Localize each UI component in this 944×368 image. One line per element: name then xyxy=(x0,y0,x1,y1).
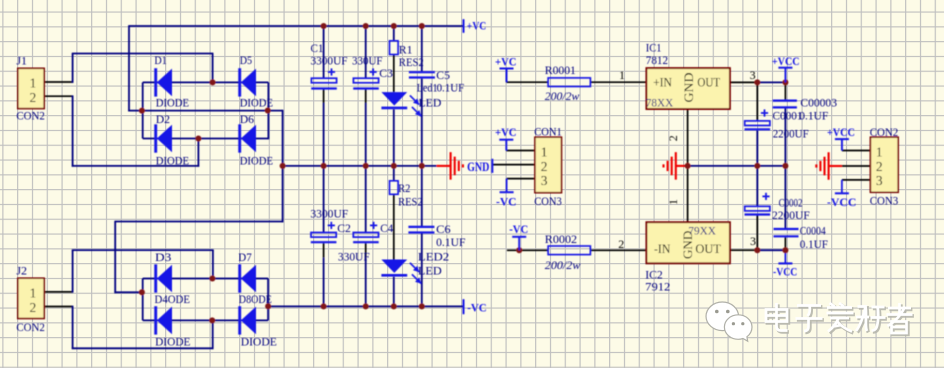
wire C4 to bottom rail xyxy=(365,258,367,307)
stem +VC at CON1 xyxy=(505,140,507,151)
svg-text:C3: C3 xyxy=(379,66,393,80)
svg-text:RES2: RES2 xyxy=(398,194,423,208)
power -VC at R0002 xyxy=(512,237,526,251)
svg-text:330UF: 330UF xyxy=(352,54,383,68)
watermark wechat logo xyxy=(706,302,752,341)
pin IC2 OUT xyxy=(730,249,758,251)
wire CON2 pin2 xyxy=(842,165,871,167)
wire D3-D4 left vertical xyxy=(142,279,144,321)
wire C0004 to IC2 rail xyxy=(784,237,786,250)
junction (323.6,26) xyxy=(321,23,327,29)
svg-text:D2: D2 xyxy=(156,112,170,126)
wire row y110 between diode rows xyxy=(128,110,282,112)
svg-text:LED: LED xyxy=(418,264,442,278)
power -VCC at IC2 out xyxy=(778,262,792,264)
svg-text:2: 2 xyxy=(876,159,883,174)
svg-text:CON2: CON2 xyxy=(16,109,45,123)
svg-text:C2: C2 xyxy=(337,221,351,235)
wire J1 pin1 xyxy=(44,81,73,83)
wire C1 top xyxy=(323,26,325,78)
svg-text:DIODE: DIODE xyxy=(240,153,273,167)
svg-text:OUT: OUT xyxy=(695,241,721,256)
junction (323.6,306.4) xyxy=(321,303,327,309)
svg-text:3300UF: 3300UF xyxy=(310,207,348,221)
junction (365.7,165.9) xyxy=(363,163,369,169)
svg-text:+VC: +VC xyxy=(467,19,487,33)
earth ground at CON2 pin2 xyxy=(816,152,828,180)
junction (282.6,165.9) xyxy=(280,163,286,169)
svg-text:J1: J1 xyxy=(16,53,27,67)
svg-text:+VC: +VC xyxy=(495,125,517,139)
power +VCC at IC1 out xyxy=(778,68,792,83)
wire J2 pin2 xyxy=(44,306,73,308)
junction (687.6,165.9) xyxy=(685,163,691,169)
svg-text:+IN: +IN xyxy=(653,75,672,90)
wire mid to C0002 xyxy=(756,166,758,206)
svg-text:D8ODE: D8ODE xyxy=(239,292,272,306)
svg-text:CON3: CON3 xyxy=(534,194,562,208)
junction (198.4,138.5) xyxy=(195,136,201,142)
svg-text:RES2: RES2 xyxy=(399,55,424,69)
pin C1 bottom xyxy=(323,89,325,103)
svg-text:1: 1 xyxy=(876,145,883,160)
wire to C0001 xyxy=(756,82,758,121)
wire mid rail to C2 xyxy=(323,166,325,233)
wire J1.2 to D2 row xyxy=(72,165,199,167)
power +VC at R0001 xyxy=(500,69,514,83)
pin IC2 GND up xyxy=(687,166,689,222)
svg-text:J2: J2 xyxy=(16,264,27,278)
resistor R0001 body xyxy=(548,78,590,87)
capacitor C0001 xyxy=(745,109,771,129)
wire riser J1.1 xyxy=(72,54,74,83)
wire D5/D6 right vertical xyxy=(267,82,269,139)
wire C2 to bottom rail xyxy=(323,258,325,307)
pin C4 bottom xyxy=(365,243,367,258)
wire CON1 pin3 xyxy=(507,178,535,180)
wire C0001 to mid xyxy=(756,131,758,166)
junction (421.8,165.9) xyxy=(419,163,425,169)
svg-text:-VC: -VC xyxy=(496,195,517,209)
junction (757.3,165.9) xyxy=(754,163,760,169)
wire GND mid rail xyxy=(283,165,437,167)
svg-text:-IN: -IN xyxy=(654,241,671,256)
capacitor C0004 xyxy=(774,229,799,236)
power +VC at CON1 xyxy=(499,140,513,151)
junction (393.8,306.4) xyxy=(391,303,397,309)
stem -VC at R0002 xyxy=(518,237,520,251)
wire CON2 pin3 xyxy=(842,179,871,181)
connector CON2 right xyxy=(870,137,898,192)
junction (365.7,26) xyxy=(363,23,369,29)
junction (519.2,250.3) xyxy=(516,247,522,253)
svg-text:GND: GND xyxy=(681,73,696,103)
svg-text:C0001: C0001 xyxy=(773,108,803,122)
svg-text:-VC: -VC xyxy=(467,301,487,315)
power -VC at CON1 xyxy=(500,191,514,193)
svg-text:R0002: R0002 xyxy=(545,232,577,246)
LED Led1 xyxy=(381,92,421,116)
svg-text:+VC: +VC xyxy=(495,55,517,69)
svg-text:3300UF: 3300UF xyxy=(311,54,348,68)
capacitor C5 xyxy=(409,72,435,77)
svg-text:3: 3 xyxy=(750,234,756,248)
resistor R0002 body xyxy=(548,246,590,255)
wire riser J2.2 down xyxy=(72,306,74,349)
svg-text:CON2: CON2 xyxy=(870,125,899,139)
connector J2 xyxy=(18,278,44,318)
svg-text:-VCC: -VCC xyxy=(773,264,797,278)
wire C3 top xyxy=(365,26,367,78)
svg-text:2: 2 xyxy=(666,135,680,141)
wire D7/D8 right vertical xyxy=(267,279,269,321)
svg-text:1: 1 xyxy=(541,145,548,160)
junction (785.4,82.4) xyxy=(782,79,788,85)
wire D2 D6 row xyxy=(143,138,269,140)
wire C1 to mid rail xyxy=(323,103,325,166)
wire CON1 pin1 xyxy=(506,150,535,152)
junction (212.2,320.4) xyxy=(209,317,215,323)
svg-text:2: 2 xyxy=(541,159,548,174)
svg-text:0.1UF: 0.1UF xyxy=(800,237,828,251)
stem -VCC at CON2 xyxy=(841,180,843,193)
junction (421.8,26) xyxy=(419,23,425,29)
wire vertical x115 xyxy=(114,222,116,294)
wire C5 to mid rail xyxy=(421,79,423,166)
watermark text 电子爱好者 xyxy=(767,304,914,334)
wire left vertical x129 xyxy=(128,25,130,111)
capacitor C2 xyxy=(311,222,337,242)
svg-text:79XX: 79XX xyxy=(688,223,716,237)
regulator IC1 7812 xyxy=(646,68,730,109)
svg-text:D1: D1 xyxy=(154,53,166,67)
wire mid rail to C4 xyxy=(365,166,367,233)
junction (141.9,110.6) xyxy=(139,108,145,114)
svg-text:3: 3 xyxy=(541,173,548,188)
wire CON1 pin2 from GND port xyxy=(492,164,535,166)
wire R0002 to IC2 -IN xyxy=(590,249,646,251)
diode D7 xyxy=(240,264,256,292)
junction (267.7,110.5) xyxy=(265,108,271,114)
wire up to D2/D6 row xyxy=(197,139,199,167)
connector J1 xyxy=(18,68,44,108)
svg-text:-VC: -VC xyxy=(509,222,528,236)
diode D4 xyxy=(156,306,172,334)
capacitor C3 xyxy=(353,68,379,88)
junction (365.7,306.4) xyxy=(363,303,369,309)
wire -VC bottom rail xyxy=(267,305,463,307)
svg-text:C6: C6 xyxy=(436,222,451,236)
wire mid rail to C6 xyxy=(421,166,423,227)
wire D5 row xyxy=(213,81,269,83)
wire right GND rail xyxy=(687,165,786,167)
wire cross horizontal y221 xyxy=(114,221,283,223)
wire mid rail to R2 xyxy=(393,166,395,181)
junction (757.3,250.2) xyxy=(754,247,760,253)
wire +VC to R0001 xyxy=(507,81,549,83)
wire mid to C0004 xyxy=(784,166,786,229)
LED LED2 xyxy=(381,260,421,284)
wire drop to D3/D7 row xyxy=(212,250,214,278)
pin IC1 OUT xyxy=(730,81,758,83)
svg-text:2200UF: 2200UF xyxy=(773,127,809,141)
capacitor C00003 xyxy=(773,101,797,108)
stem -VCC at IC2 out xyxy=(784,250,786,263)
wire C6 to bottom rail xyxy=(421,233,423,307)
wire D1 row xyxy=(143,81,213,83)
svg-text:0.1UF: 0.1UF xyxy=(799,108,828,122)
svg-text:C4: C4 xyxy=(380,221,393,235)
svg-text:R0001: R0001 xyxy=(545,63,576,77)
svg-text:3: 3 xyxy=(876,173,883,188)
junction (393.8,26) xyxy=(391,23,397,29)
pin C3 bottom xyxy=(365,89,367,103)
junction (757.3,82.4) xyxy=(754,79,760,85)
svg-text:200/2w: 200/2w xyxy=(545,258,581,272)
wire IC1 out rail xyxy=(757,81,785,83)
capacitor C1 xyxy=(311,68,337,88)
junction (785.4,165.9) xyxy=(782,163,788,169)
diode D3 xyxy=(156,264,172,292)
svg-text:DIODE: DIODE xyxy=(156,96,189,110)
svg-text:78XX: 78XX xyxy=(646,96,674,110)
svg-text:DIODE: DIODE xyxy=(156,153,189,167)
wire D3 D7 row xyxy=(143,278,268,280)
wire R1 top xyxy=(393,26,395,41)
stem +VC at R0001 xyxy=(506,69,508,83)
svg-text:2: 2 xyxy=(30,300,37,315)
svg-text:C0004: C0004 xyxy=(800,224,826,238)
power +VCC at CON2 xyxy=(835,139,849,150)
junction (323.6,165.9) xyxy=(321,163,327,169)
capacitor C0002 xyxy=(745,193,771,215)
wire -VC stub to R0002 xyxy=(507,249,548,251)
wire D4 D8 row xyxy=(143,319,268,321)
power -VCC at CON2 xyxy=(835,192,849,194)
wire D1-D2 left vertical xyxy=(142,82,144,138)
wire C5 top xyxy=(421,26,423,71)
wire riser J2.1 up xyxy=(72,250,74,293)
svg-text:-VCC: -VCC xyxy=(827,195,856,209)
diode D8 xyxy=(240,306,256,334)
svg-text:Led1: Led1 xyxy=(417,81,438,95)
power -VC bottom rail xyxy=(463,299,465,314)
svg-text:2: 2 xyxy=(30,90,37,105)
svg-text:LED: LED xyxy=(419,95,442,109)
wire top horizontal J1.1 xyxy=(72,53,214,55)
wire mid vertical x282 xyxy=(282,110,284,223)
capacitor C4 xyxy=(353,222,379,242)
wire red lead to power ground xyxy=(437,165,451,167)
red lead CON2 earth xyxy=(829,165,842,167)
svg-text:1: 1 xyxy=(666,199,680,205)
wire R0001 to IC1 +IN xyxy=(590,81,646,83)
wire LED2 to bottom rail xyxy=(393,277,395,307)
junction (212.4,278.5) xyxy=(209,276,215,282)
earth ground at IC GND rail xyxy=(664,152,676,180)
wire J2 pin1 xyxy=(44,291,73,293)
junction (268.1,306.3) xyxy=(265,303,271,309)
wire up to D4/D8 row xyxy=(212,320,214,349)
power ground GND (red bars) xyxy=(451,152,463,180)
junction (212.6,82.4) xyxy=(210,79,216,85)
red lead right earth xyxy=(676,165,688,167)
diode D5 xyxy=(240,68,256,96)
svg-text:1: 1 xyxy=(30,285,37,300)
power port bar GND xyxy=(491,159,493,173)
svg-text:3: 3 xyxy=(750,68,756,82)
pin IC1 GND down xyxy=(687,109,689,167)
wire J1 pin2 xyxy=(44,95,73,97)
capacitor C6 xyxy=(408,227,434,233)
wire J2.2 horizontal xyxy=(72,347,214,349)
svg-text:1: 1 xyxy=(619,68,625,82)
resistor R1 body xyxy=(390,41,399,55)
wire J2.1 horizontal xyxy=(72,249,214,251)
junction (393.8,165.9) xyxy=(391,163,397,169)
power +VC top rail xyxy=(463,19,465,33)
svg-text:2200UF: 2200UF xyxy=(772,208,810,222)
svg-text:GND: GND xyxy=(467,160,489,174)
stem +VCC xyxy=(784,68,786,83)
connector CON1 xyxy=(535,137,562,193)
pin C2 bottom xyxy=(323,243,325,258)
svg-text:2: 2 xyxy=(618,237,624,251)
stem +VCC at CON2 xyxy=(841,139,843,150)
svg-text:CON3: CON3 xyxy=(870,194,899,208)
junction (141.9,292.3) xyxy=(139,289,145,295)
wire IC2 out rail xyxy=(757,249,785,251)
svg-text:D6: D6 xyxy=(240,112,254,126)
svg-text:200/2w: 200/2w xyxy=(545,89,580,103)
regulator IC2 7912 xyxy=(646,222,730,263)
svg-text:OUT: OUT xyxy=(697,75,720,90)
wire C3 to mid rail xyxy=(365,103,367,166)
wire into D3/D4 node xyxy=(114,291,142,293)
wire CON2 pin1 xyxy=(842,150,871,152)
svg-text:7812: 7812 xyxy=(646,53,668,67)
svg-text:D5: D5 xyxy=(240,53,252,67)
svg-text:7912: 7912 xyxy=(645,279,670,293)
svg-text:D7: D7 xyxy=(238,250,251,264)
wire LED1 to mid rail xyxy=(393,109,395,165)
svg-text:DIODE: DIODE xyxy=(241,335,277,349)
wire C00003 to mid xyxy=(784,109,786,166)
wire riser J1.2 down xyxy=(72,95,74,166)
svg-text:330UF: 330UF xyxy=(338,250,370,264)
wire R1 to LED1 xyxy=(393,55,395,93)
diode D2 xyxy=(156,124,172,152)
svg-text:+VCC: +VCC xyxy=(772,54,800,68)
svg-text:CON2: CON2 xyxy=(16,320,45,334)
svg-text:LED2: LED2 xyxy=(418,250,449,264)
svg-text:1: 1 xyxy=(30,75,37,90)
junction (785.4,250.2) xyxy=(782,247,788,253)
svg-text:D3: D3 xyxy=(155,250,171,264)
svg-text:0.1UF: 0.1UF xyxy=(437,81,465,95)
svg-text:+VCC: +VCC xyxy=(827,125,855,139)
wire +VC top rail xyxy=(129,25,464,27)
svg-text:D4ODE: D4ODE xyxy=(155,292,191,306)
diode D1 xyxy=(156,68,172,96)
junction (421.8,306.4) xyxy=(419,303,425,309)
resistor R2 body xyxy=(390,181,399,195)
svg-text:DIODE: DIODE xyxy=(240,96,273,110)
wire R2 to LED2 xyxy=(393,194,395,259)
svg-text:0.1UF: 0.1UF xyxy=(436,235,466,249)
svg-text:C00003: C00003 xyxy=(800,96,837,110)
stem -VC at CON1 xyxy=(506,179,508,193)
wire drop to D1/D5 row xyxy=(212,54,214,83)
svg-text:R2: R2 xyxy=(398,181,410,195)
diode D6 xyxy=(240,124,256,152)
wire to C00003 xyxy=(784,82,786,100)
wire C0002 to IC2 rail xyxy=(756,215,758,251)
svg-text:CON1: CON1 xyxy=(534,124,562,138)
svg-text:DIODE: DIODE xyxy=(155,335,190,349)
